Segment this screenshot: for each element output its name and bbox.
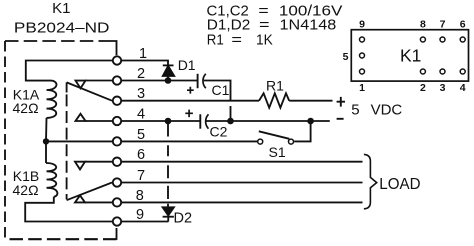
svg-text:1N4148: 1N4148 (280, 16, 337, 33)
NC contact triangle on pin2 stub (76, 81, 86, 89)
wire line1 pin1 to D1 (122, 61, 168, 66)
pin 5 circle (113, 137, 121, 145)
LOAD curly brace (364, 154, 377, 208)
wire line3 pin3 to R1 (122, 100, 259, 102)
actuator dashed link (66, 94, 68, 199)
svg-text:PB2024–ND: PB2024–ND (14, 19, 110, 36)
svg-text:C1: C1 (212, 82, 230, 98)
wire line5 pin5 to S1 (122, 140, 257, 142)
relay K1 dashed enclosure left edge (4, 41, 6, 239)
svg-text:R1: R1 (207, 32, 224, 49)
package pin 4 hole (460, 69, 465, 74)
diode D2 triangle (163, 207, 174, 215)
svg-text:2: 2 (420, 82, 426, 94)
coil K1B (46, 163, 57, 197)
svg-text:K1: K1 (400, 46, 421, 66)
svg-text:9: 9 (359, 19, 365, 31)
wire line9 pin9 to D2 (122, 221, 169, 223)
pin 1 circle (113, 56, 121, 64)
armature arm upper (pin3 common) (67, 82, 112, 100)
wire line6 pin6 to LOAD (122, 161, 363, 163)
svg-text:7: 7 (137, 168, 145, 184)
NO contact triangle on pin4 stub (76, 114, 86, 121)
wire C1 to minus rail riser (204, 81, 231, 122)
svg-text:1: 1 (359, 82, 365, 94)
svg-text:5: 5 (137, 127, 145, 143)
svg-text:7: 7 (440, 19, 446, 31)
wire coil K1A bottom to node/coil K1B top (45, 118, 48, 163)
svg-text:D1: D1 (178, 57, 196, 73)
pin 4 circle (113, 117, 121, 125)
package pin 5 hole (360, 53, 365, 58)
svg-text:42Ω: 42Ω (13, 100, 39, 116)
armature arm lower (pin7 common) (67, 183, 112, 201)
label minus supply (337, 118, 344, 120)
relay K1 dashed enclosure bottom-right stub (116, 228, 118, 240)
wire line4 C2 to -5VDC terminal (207, 120, 330, 122)
svg-text:K1: K1 (52, 0, 70, 17)
wire S1 to line4 riser (294, 121, 310, 141)
package pin 6 hole (460, 37, 465, 42)
svg-text:5: 5 (343, 51, 349, 63)
wire line2 pin2 to C1 (122, 80, 198, 82)
junction dot coil center tap (43, 138, 49, 144)
pin 8 circle (113, 198, 121, 206)
switch S1 left contact circle (258, 139, 263, 144)
junction dot line4 dashed drop (165, 118, 172, 125)
label plus C2 (185, 110, 193, 118)
svg-text:4: 4 (137, 107, 145, 123)
wire line8 pin8 to LOAD (122, 201, 363, 203)
svg-text:R1: R1 (266, 77, 284, 93)
capacitor C1 curved plate (203, 74, 206, 88)
svg-text:LOAD: LOAD (379, 176, 420, 193)
package pin 2 hole (420, 69, 425, 74)
wire line7 pin7 to LOAD (122, 182, 363, 184)
capacitor C1 straight plate (197, 74, 199, 88)
package pin 1 hole (360, 69, 365, 74)
wire contact to pin2 (86, 80, 113, 82)
wire contact to pin6 (85, 161, 112, 163)
diode D1 anode stub (167, 76, 169, 81)
svg-text:6: 6 (137, 147, 145, 163)
label plus C1 (187, 87, 194, 94)
svg-text:6: 6 (460, 19, 466, 31)
svg-text:S1: S1 (269, 144, 286, 160)
wire line4 pin4 to C2 (122, 120, 200, 122)
svg-text:3: 3 (440, 82, 446, 94)
package pin 3 hole (440, 69, 445, 74)
junction dot D1-line2 (165, 77, 172, 84)
package pin 9 hole (360, 37, 365, 42)
package pin 8 hole (420, 37, 425, 42)
package pin 7 hole (440, 37, 445, 42)
svg-text:4: 4 (460, 82, 466, 94)
svg-text:9: 9 (136, 207, 144, 223)
relay K1 dashed enclosure bottom edge (5, 238, 117, 240)
diode D2 stub to line9 (167, 217, 169, 222)
svg-text:1K: 1K (256, 32, 273, 49)
svg-text:VDC: VDC (371, 102, 403, 119)
wire R1 to +5VDC terminal (289, 100, 332, 102)
svg-text:3: 3 (137, 86, 145, 102)
wire contact to pin4 (86, 120, 113, 122)
wire coil node to pin5 (46, 140, 112, 142)
coil K1A (47, 81, 57, 118)
dashed drop wire line4 to D2 (167, 121, 169, 207)
capacitor C2 curved plate (206, 114, 209, 128)
svg-text:D2: D2 (174, 211, 193, 227)
svg-text:=: = (231, 32, 242, 49)
NO contact triangle on pin8 stub (75, 195, 85, 202)
relay K1 dashed enclosure top-right corner (103, 41, 117, 55)
relay K1 dashed enclosure top edge (5, 40, 103, 42)
pin 7 circle (113, 178, 121, 186)
svg-text:8: 8 (136, 188, 144, 204)
pin 3 circle (113, 97, 121, 105)
switch S1 lever (259, 131, 290, 139)
armature pivot tail upper (66, 82, 68, 92)
svg-text:5: 5 (351, 102, 359, 119)
NC contact triangle on pin6 stub (75, 162, 85, 170)
svg-text:1: 1 (139, 46, 147, 62)
svg-text:8: 8 (420, 19, 426, 31)
wire coil K1B bottom to pin9 (25, 197, 112, 222)
pin 6 circle (113, 158, 121, 166)
wire contact to pin8 (85, 201, 112, 203)
svg-text:42Ω: 42Ω (13, 182, 39, 198)
resistor R1 zigzag (259, 93, 289, 107)
pin 2 circle (113, 76, 121, 84)
capacitor C2 straight plate (199, 114, 201, 128)
diode D2 cathode bar (163, 216, 174, 218)
junction dot riser-line4 (227, 118, 234, 125)
diode D1 triangle (163, 66, 174, 76)
wire pin1 to coil K1A top (26, 61, 112, 81)
svg-text:C2: C2 (210, 124, 228, 140)
diode D1 cathode bar (163, 64, 174, 66)
svg-text:2: 2 (137, 66, 145, 82)
pin 9 circle (113, 217, 121, 225)
junction dot S1 riser-line4 (307, 118, 314, 125)
label plus supply (337, 97, 345, 107)
relay package outline (351, 30, 468, 81)
switch S1 right contact circle (289, 139, 294, 144)
